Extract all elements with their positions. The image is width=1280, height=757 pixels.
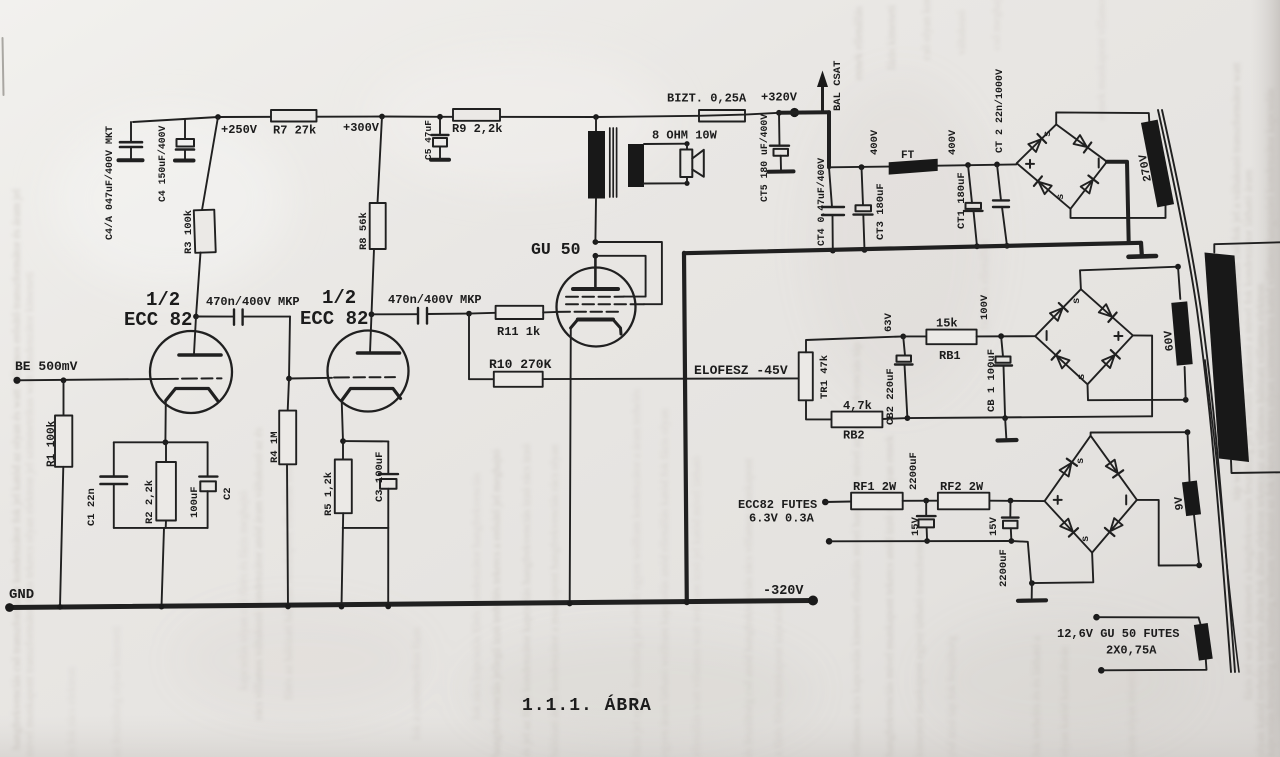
svg-text:2200uF: 2200uF: [998, 549, 1010, 587]
ground bar C4: [175, 159, 194, 163]
winding 12.6V: [1194, 623, 1213, 661]
svg-text:s: s: [1071, 298, 1083, 304]
wire grid V2: [289, 377, 332, 380]
wire to V2 grid: [289, 317, 290, 379]
bridge rectifier B1: [1017, 124, 1107, 208]
terminal GND left: [5, 603, 14, 612]
wire RF2 to bridge3: [989, 500, 1044, 502]
node +300V: [379, 114, 385, 120]
wire 12.6V upper: [1097, 617, 1201, 624]
svg-text:15V: 15V: [988, 516, 1000, 536]
GU50 cathode: [578, 318, 613, 322]
diode B3 TR: [1106, 460, 1118, 473]
node R1 top: [61, 377, 67, 383]
wire heater lower to ground: [1011, 541, 1031, 583]
svg-text:ECC82 FUTES: ECC82 FUTES: [738, 498, 817, 512]
junction dots on ground bus: [57, 604, 63, 610]
diode B1 TL: [1028, 139, 1041, 152]
resistor RB1: [903, 335, 926, 337]
winding mains primary: [1205, 253, 1250, 463]
svg-text:kapcsolás olyan cső fűtés és f: kapcsolás olyan cső fűtés és fázis megha…: [238, 490, 250, 690]
wire +320V thick link: [779, 110, 829, 115]
capacitor C4/A: [130, 122, 132, 142]
wire R1 bottom: [60, 467, 63, 607]
svg-text:2X0,75A: 2X0,75A: [1106, 644, 1157, 658]
svg-text:63V: 63V: [883, 312, 895, 332]
svg-text:R8 56k: R8 56k: [358, 212, 370, 250]
svg-text:CT 2 22n/1000V: CT 2 22n/1000V: [994, 69, 1006, 153]
svg-text:CT3 180uF: CT3 180uF: [875, 183, 887, 240]
capacitor 470n (1): [196, 316, 234, 318]
wire TR1 top: [806, 336, 903, 352]
wire R3 to plate: [196, 253, 201, 317]
node +320V: [776, 110, 782, 116]
bridge rectifier B2: [1035, 289, 1133, 384]
svg-text:C2: C2: [222, 487, 234, 500]
svg-text:400V: 400V: [869, 129, 881, 155]
node CB2 top: [900, 334, 906, 340]
wire RF1 to RF2: [903, 500, 938, 502]
capacitor 470n (2): [372, 313, 419, 315]
wire heater lower: [829, 540, 1011, 542]
diode B2 BL: [1057, 356, 1070, 369]
diode B2 TR: [1099, 304, 1112, 316]
node tube1 plate: [193, 314, 199, 320]
svg-text:kimeneti munkapont egyen látha: kimeneti munkapont egyen látható transzf…: [914, 527, 926, 757]
svg-text:RB1: RB1: [939, 349, 961, 363]
tube V1 grid: [182, 377, 222, 379]
svg-text:fok terhelés és és látható a: fok terhelés és és látható a: [1031, 636, 1043, 757]
scan edge artifact: [3, 38, 4, 95]
wire R8 bottom to plate: [372, 249, 375, 314]
wire R3 top: [202, 117, 218, 210]
wire 12.6V lower: [1101, 660, 1206, 671]
svg-text:R3 100k: R3 100k: [183, 210, 195, 254]
ground bar CT5: [769, 169, 794, 173]
svg-text:hangfrekvenciás cső transzform: hangfrekvenciás cső transzformátor konde…: [11, 189, 23, 750]
terminal 12.6V lower: [1098, 667, 1105, 674]
svg-text:R1 100k: R1 100k: [46, 420, 58, 467]
svg-text:100V: 100V: [979, 294, 991, 320]
capacitor CT1: [965, 162, 971, 168]
svg-text:4,7k: 4,7k: [843, 399, 872, 413]
wire g2 loop: [595, 256, 645, 297]
node V2 cathode: [340, 438, 346, 444]
capacitor CT5: [778, 113, 781, 146]
ground bar C5: [431, 158, 449, 162]
node CB1 top: [998, 333, 1004, 339]
capacitor CB2: [903, 336, 905, 355]
label B3 plus: [1054, 496, 1062, 504]
GU50 screen grid g2: [566, 296, 624, 298]
capacitor C5: [437, 114, 443, 120]
terminal -320V: [808, 596, 818, 606]
wire OPT primary top: [595, 117, 597, 131]
svg-text:15V: 15V: [910, 516, 922, 536]
svg-text:15k: 15k: [936, 317, 958, 331]
label B1 plus: [1026, 160, 1034, 168]
filter FT: [889, 159, 938, 175]
node V1 cathode: [163, 439, 169, 445]
node +250V: [215, 114, 221, 120]
tube V2 cathode: [342, 389, 401, 401]
svg-text:ECC 82: ECC 82: [300, 308, 368, 330]
node CB1 bottom / ground: [1002, 415, 1008, 421]
svg-text:R2 2,2k: R2 2,2k: [144, 480, 156, 524]
resistor R9: [453, 109, 500, 121]
svg-text:100uF: 100uF: [189, 486, 201, 518]
svg-text:BIZT. 0,25A: BIZT. 0,25A: [667, 92, 747, 106]
node RB2/CB2 bottom: [905, 415, 911, 421]
svg-text:GU 50: GU 50: [531, 240, 581, 259]
capacitor CT4: [829, 167, 832, 207]
svg-text:BE 500mV: BE 500mV: [15, 359, 78, 374]
svg-text:R5 1,2k: R5 1,2k: [323, 472, 335, 516]
OPT core: [610, 128, 617, 197]
svg-text:1/2: 1/2: [146, 289, 180, 311]
svg-text:s: s: [1080, 536, 1092, 542]
wire BAL CSAT riser: [827, 112, 831, 167]
wire R11 to g1: [543, 311, 557, 314]
svg-text:CT4 0,47uF/400V: CT4 0,47uF/400V: [816, 158, 827, 246]
svg-text:R9 2,2k: R9 2,2k: [452, 122, 502, 136]
svg-text:fűtés az hálózati hálózati mun: fűtés az hálózati hálózati munkapont ell…: [283, 451, 295, 700]
svg-text:BAL CSAT: BAL CSAT: [832, 61, 844, 111]
svg-text:CB2 220uF: CB2 220uF: [885, 368, 897, 425]
diode B3 BR: [1110, 518, 1122, 531]
svg-text:mivel munkapont transzformátor: mivel munkapont transzformátor fázis tek…: [24, 272, 36, 757]
svg-text:fok a szimmetrikus fázis: fok a szimmetrikus fázis: [411, 627, 423, 740]
wire B2 plus to 0V: [1133, 335, 1152, 416]
svg-text:az feszültség olyan kimeneti: az feszültség olyan kimeneti: [111, 626, 123, 757]
svg-text:ECC 82: ECC 82: [124, 309, 192, 331]
wire ground bus (thick): [684, 243, 1141, 253]
svg-text:TR1 47k: TR1 47k: [819, 355, 831, 399]
resistor R5: [342, 441, 344, 459]
OPT secondary winding: [628, 144, 644, 187]
ground symbol right: [1139, 243, 1144, 255]
svg-text:ellenállás watt villamos watt: ellenállás watt villamos watt wolfram iz…: [691, 456, 703, 757]
svg-text:CB 1 100uF: CB 1 100uF: [986, 349, 998, 412]
diode B1 BR: [1081, 180, 1093, 193]
resistor R10: [494, 372, 543, 387]
svg-text:9V: 9V: [1173, 496, 1187, 511]
speaker LS: [686, 144, 688, 184]
node heater cap2: [1008, 498, 1014, 504]
resistor R11: [469, 312, 496, 315]
BAL CSAT arrow: [821, 85, 824, 112]
GU50 control grid g1: [558, 311, 618, 313]
winding 270V: [1141, 120, 1174, 208]
capacitor C2: [207, 442, 209, 476]
svg-text:8 OHM 10W: 8 OHM 10W: [652, 129, 718, 143]
svg-text:C4 150uF/400V: C4 150uF/400V: [157, 125, 168, 202]
node R11/R10: [466, 311, 472, 317]
resistor R3: [194, 210, 216, 253]
terminal heater lower: [826, 538, 833, 545]
ground bar B3: [1018, 598, 1046, 603]
wire RB1 to bridge2: [977, 335, 1036, 337]
diode B3 BL: [1060, 519, 1073, 532]
svg-text:1.1.1. ÁBRA: 1.1.1. ÁBRA: [522, 694, 652, 716]
tube GU50 envelope: [557, 268, 636, 347]
resistor R1: [55, 416, 72, 467]
wire OPT primary bottom: [594, 199, 597, 243]
svg-text:R10 270K: R10 270K: [489, 357, 552, 372]
wire GU50 cathode to ground: [570, 328, 571, 604]
svg-text:váltakozó: váltakozó: [956, 10, 968, 55]
svg-text:s: s: [1076, 374, 1088, 380]
wire secondary to speaker: [644, 144, 687, 184]
wire heater upper: [825, 501, 851, 504]
resistor R4: [288, 379, 289, 411]
wire TR1 bottom: [806, 400, 832, 419]
svg-text:cső meghajtó: cső meghajtó: [991, 0, 1003, 50]
diode B1 BL: [1039, 182, 1052, 194]
capacitor C4: [184, 120, 186, 139]
tube V2 plate: [370, 314, 372, 352]
winding 9V: [1182, 481, 1201, 517]
svg-text:C4/A 047uF/400V MKT: C4/A 047uF/400V MKT: [104, 126, 116, 240]
wire B+ rail: [133, 113, 779, 122]
capacitor 2200uF (2): [1009, 501, 1011, 518]
capacitor C3: [343, 440, 388, 442]
svg-text:+300V: +300V: [343, 121, 380, 135]
svg-text:ELOFESZ -45V: ELOFESZ -45V: [694, 363, 788, 378]
capacitor 2200uF (1): [925, 501, 927, 516]
wire B1 minus to ground (thick): [1107, 162, 1129, 243]
svg-text:C3 100uF: C3 100uF: [374, 452, 386, 502]
OPT primary winding: [588, 131, 605, 199]
wire B2 bottom to 60V winding: [1088, 384, 1186, 400]
label B2 plus: [1114, 332, 1122, 340]
ground bus: [9, 601, 813, 608]
svg-text:olyan katód katód ábrán: olyan katód katód ábrán: [1059, 646, 1071, 757]
svg-text:R7 27k: R7 27k: [273, 124, 316, 138]
svg-text:RF1 2W: RF1 2W: [853, 480, 897, 494]
wire B3 top to 9V winding: [1091, 432, 1188, 436]
wire B3 minus to 9V winding bottom: [1137, 500, 1199, 566]
svg-text:60V: 60V: [1162, 330, 1177, 352]
svg-text:CT5 180 uF/400V: CT5 180 uF/400V: [759, 114, 770, 202]
svg-text:RB2: RB2: [843, 429, 865, 443]
capacitor C1: [113, 442, 115, 476]
wire R10 to TR1 (ELOFESZ line): [543, 377, 799, 380]
fuse BIZT. 0,25A: [699, 110, 745, 122]
svg-text:fok rács kapcsolás fűtés konde: fok rács kapcsolás fűtés kondenzátor han…: [471, 472, 483, 720]
capacitor CT2: [994, 162, 1000, 168]
svg-text:cső olyan kondenzátor: cső olyan kondenzátor: [921, 0, 933, 60]
wire mains bottom: [1231, 460, 1280, 473]
node OPT primary top: [593, 114, 599, 120]
ground bar C4/A: [119, 158, 143, 162]
terminal 12.6V upper: [1093, 614, 1100, 621]
svg-text:s: s: [1042, 131, 1054, 137]
input terminal: [13, 377, 20, 384]
svg-text:GND: GND: [9, 587, 34, 603]
tube V1 plate: [194, 317, 196, 354]
tube V1 cathode: [166, 389, 218, 401]
svg-text:+320V: +320V: [761, 91, 798, 105]
capacitor CB1: [1001, 336, 1003, 356]
svg-text:kapcsolás feszültség az feszül: kapcsolás feszültség az feszültség wolfr…: [1265, 88, 1277, 757]
svg-text:egyen áram látható wolfram kap: egyen áram látható wolfram kapcsolás anó…: [659, 409, 671, 757]
node heater cap1: [923, 498, 929, 504]
tube V1 envelope: [150, 331, 232, 413]
wire B2 top to 60V winding: [1080, 267, 1178, 290]
resistor R8: [378, 117, 383, 204]
svg-text:ennek ellenállás: ennek ellenállás: [853, 6, 865, 80]
GU50 plate: [594, 256, 597, 288]
diode B2 BR: [1102, 355, 1115, 368]
potentiometer TR1: [799, 352, 813, 400]
svg-text:RF2 2W: RF2 2W: [940, 480, 984, 494]
GU50 grid g3: [566, 303, 644, 305]
winding 60V: [1171, 301, 1192, 365]
wire 0V line: [907, 416, 1152, 418]
svg-text:FT: FT: [901, 150, 915, 162]
svg-text:R11 1k: R11 1k: [497, 325, 540, 339]
wire cathode bus bottom: [114, 527, 208, 529]
svg-text:és fok rács elektron: és fok rács elektron: [66, 667, 78, 757]
wire cathode bus top: [114, 441, 208, 443]
svg-text:470n/400V MKP: 470n/400V MKP: [206, 295, 300, 309]
svg-text:rács villamos váltakozó konden: rács villamos váltakozó kondenzátor anód…: [253, 427, 265, 720]
svg-text:470n/400V MKP: 470n/400V MKP: [388, 293, 482, 307]
wire mains top: [1214, 242, 1280, 252]
svg-text:+250V: +250V: [221, 123, 258, 137]
label B3 minus: [1125, 495, 1127, 504]
resistor RF2: [938, 493, 990, 510]
svg-text:R4 1M: R4 1M: [269, 431, 281, 463]
wire FT line: [829, 164, 1016, 167]
resistor RB2: [832, 412, 883, 428]
svg-text:C1 22n: C1 22n: [86, 488, 98, 526]
svg-text:CT1 180uF: CT1 180uF: [956, 172, 968, 229]
node GU50 plate loop A: [593, 239, 599, 245]
wire ground riser (thick): [684, 253, 687, 603]
svg-text:cső izzó táp fok feszültség: cső izzó táp fok feszültség: [946, 635, 958, 757]
svg-text:áram olyan tekercs: áram olyan tekercs: [1126, 670, 1138, 757]
ground bar CB1: [998, 438, 1017, 443]
resistor R7: [271, 110, 317, 122]
wire RB2 to 0V: [882, 417, 907, 420]
wire node to R10: [469, 314, 494, 380]
bridge rectifier B3: [1045, 436, 1137, 553]
label B2 minus: [1046, 331, 1048, 340]
svg-text:12,6V GU 50 FUTES: 12,6V GU 50 FUTES: [1057, 627, 1179, 641]
wire R1 top: [63, 380, 65, 415]
svg-text:a fűtés fűtés munkapont kapcso: a fűtés fűtés munkapont kapcsolás: [773, 599, 785, 757]
wire B1 bottom to 270V winding: [1071, 206, 1166, 218]
svg-text:fázis kimeneti: fázis kimeneti: [886, 5, 898, 70]
transformer core: [1158, 110, 1231, 672]
svg-text:s: s: [1055, 194, 1067, 200]
wire B1 top to 270V winding: [1056, 112, 1149, 124]
label B1 minus: [1098, 159, 1100, 168]
resistor RF1: [851, 493, 903, 510]
wire g3 loop: [595, 242, 662, 304]
svg-text:ennek munkapont villamos: ennek munkapont villamos: [1096, 0, 1108, 120]
svg-text:2200uF: 2200uF: [908, 452, 920, 490]
wire input to grid: [17, 379, 178, 381]
diode B1 TR: [1074, 135, 1087, 147]
node GU50 plate loop B: [593, 253, 599, 259]
node V2 grid: [286, 376, 292, 382]
svg-text:6.3V 0.3A: 6.3V 0.3A: [749, 512, 815, 526]
terminal heater upper: [822, 499, 829, 506]
diode B3 TL: [1060, 463, 1072, 476]
svg-text:-320V: -320V: [763, 584, 804, 599]
svg-text:C5 47uF: C5 47uF: [423, 120, 434, 160]
capacitor CT3: [859, 164, 865, 170]
diode B2 TL: [1050, 308, 1063, 321]
tube V2 envelope: [328, 331, 409, 412]
svg-text:1/2: 1/2: [322, 287, 356, 309]
wire B3 bottom to ground: [1032, 553, 1093, 584]
node V2 plate: [369, 311, 375, 317]
svg-text:400V: 400V: [947, 129, 959, 155]
resistor R2: [165, 442, 167, 462]
svg-text:s: s: [1075, 458, 1087, 464]
